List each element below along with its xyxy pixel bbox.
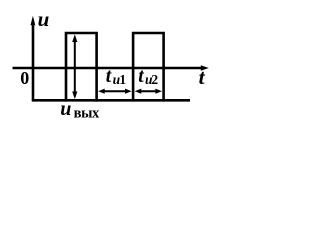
width arrow t_i1 bbox=[98, 89, 132, 94]
pulse 1 bbox=[66, 33, 97, 102]
vertical axis u bbox=[31, 16, 36, 102]
pulse 2 bbox=[133, 33, 164, 102]
svg-text:2: 2 bbox=[151, 72, 158, 87]
svg-text:0: 0 bbox=[20, 68, 29, 88]
baseline low level bbox=[32, 99, 190, 102]
horizontal axis t bbox=[13, 65, 209, 71]
label t_i1 bbox=[106, 66, 127, 87]
svg-text:u: u bbox=[38, 7, 50, 31]
svg-text:1: 1 bbox=[119, 72, 126, 87]
amplitude arrow u_vyh bbox=[72, 34, 77, 99]
svg-text:t: t bbox=[106, 66, 112, 87]
label u_vyh bbox=[60, 98, 100, 121]
width arrow t_i2 bbox=[135, 89, 162, 94]
svg-text:t: t bbox=[199, 65, 206, 89]
svg-text:u: u bbox=[60, 98, 71, 120]
svg-text:t: t bbox=[138, 66, 144, 87]
svg-text:вых: вых bbox=[74, 105, 100, 121]
label t_i2 bbox=[138, 66, 158, 87]
